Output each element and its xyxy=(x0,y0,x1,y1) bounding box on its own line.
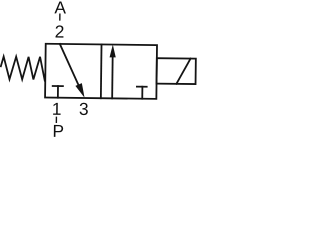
spring (return spring, left side) xyxy=(1,56,45,80)
dashed leader A to 2 xyxy=(59,14,61,20)
dashed leader 1 to P xyxy=(55,117,57,122)
arrowhead of flow arrow 2-3 xyxy=(75,83,84,98)
flow arrow 1-2 (right box) shaft xyxy=(111,52,114,98)
svg-text:P: P xyxy=(52,121,64,141)
blocked port 3 (right box) crossbar xyxy=(137,86,147,88)
solenoid coil box xyxy=(157,58,196,84)
arrowhead of flow arrow 1-2 xyxy=(110,45,116,58)
blocked port 3 (right box) stem xyxy=(141,87,143,99)
svg-text:3: 3 xyxy=(79,99,89,119)
solenoid diagonal xyxy=(176,58,190,84)
valve body outer box xyxy=(45,44,157,99)
flow arrow 2-3 (left box) xyxy=(59,44,80,87)
blocked port 1 (left box) stem xyxy=(57,86,59,98)
svg-text:1: 1 xyxy=(52,99,62,119)
divider between valve positions xyxy=(100,44,103,98)
svg-text:2: 2 xyxy=(55,21,65,41)
blocked port 1 (left box) crossbar xyxy=(53,85,63,87)
svg-text:A: A xyxy=(54,0,66,17)
